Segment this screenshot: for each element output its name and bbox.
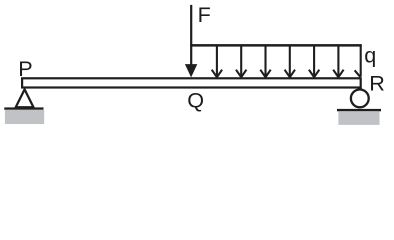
distributed load arrow 1 — [212, 45, 222, 77]
force F arrowhead — [185, 64, 197, 77]
beam PQ R (white bar) — [22, 78, 361, 87]
pin support triangle (left) — [16, 89, 34, 107]
distributed load arrow 4 — [285, 45, 295, 77]
distributed load right edge arrow — [355, 45, 361, 77]
distributed load arrow 5 — [309, 45, 319, 77]
right ground block — [338, 111, 379, 125]
svg-text:F: F — [198, 2, 211, 27]
right ground line — [337, 109, 381, 111]
svg-text:P: P — [18, 56, 32, 81]
left ground line — [4, 107, 43, 109]
roller circle (right support) — [351, 90, 369, 108]
distributed load arrow 3 — [260, 45, 270, 77]
force F stem — [190, 5, 192, 66]
svg-text:R: R — [369, 70, 385, 95]
svg-text:q: q — [364, 42, 376, 67]
distributed load arrow 2 — [236, 45, 246, 77]
svg-text:Q: Q — [187, 87, 204, 112]
left ground block — [5, 110, 44, 124]
distributed load top line — [190, 44, 362, 47]
distributed load arrow 6 — [333, 45, 343, 77]
